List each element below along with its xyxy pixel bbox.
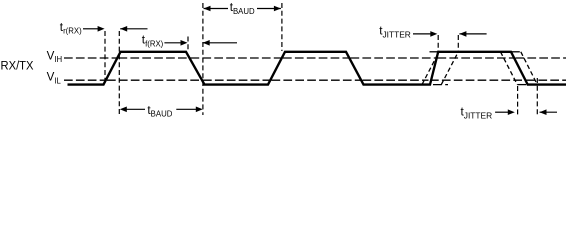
svg-text:VIL: VIL bbox=[47, 71, 62, 86]
wire jitter late rise dashed low segment bbox=[433, 84, 448, 86]
wire jitter early rise dashed high segment bbox=[430, 51, 439, 53]
dimension tJITTER top arrows bbox=[413, 33, 432, 35]
node witness line tf right / tBAUD top left / tBAUD bottom right bbox=[202, 3, 204, 115]
dimension tr(RX) arrows bbox=[83, 28, 98, 30]
dimension tJITTER bottom arrows bbox=[495, 111, 509, 113]
node witness line tr right / tBAUD bottom left bbox=[118, 31, 120, 115]
svg-text:tf(RX): tf(RX) bbox=[142, 33, 164, 49]
svg-text:RX/TX: RX/TX bbox=[1, 59, 34, 73]
wire jitter early falling edge (dashed) bbox=[501, 52, 518, 85]
node witness line tJITTER top right bbox=[457, 35, 459, 51]
wire jitter late rising edge (dashed) bbox=[441, 52, 458, 85]
node VIL dashed level line bbox=[64, 79, 106, 81]
dimension tBAUD top arrows bbox=[204, 8, 229, 10]
svg-text:tBAUD: tBAUD bbox=[147, 103, 172, 119]
wire jitter early fall dashed low segment bbox=[517, 84, 528, 86]
svg-text:tJITTER: tJITTER bbox=[461, 105, 493, 121]
svg-text:tBAUD: tBAUD bbox=[230, 0, 255, 16]
node witness line tJITTER top left bbox=[437, 35, 439, 51]
node witness line tJITTER bottom left bbox=[517, 86, 519, 115]
node witness line tJITTER bottom right bbox=[536, 78, 538, 115]
svg-text:VIH: VIH bbox=[47, 50, 63, 65]
wire jitter late falling edge (dashed) bbox=[521, 52, 538, 85]
svg-text:tJITTER: tJITTER bbox=[379, 24, 411, 40]
dimension tf(RX) arrows bbox=[164, 42, 182, 44]
dimension tBAUD bottom arrows bbox=[126, 108, 145, 110]
node witness line tr left bbox=[104, 31, 106, 84]
svg-text:tr(RX): tr(RX) bbox=[60, 20, 82, 36]
wire jitter late fall dashed high segment bbox=[511, 51, 521, 53]
node witness line tf left bbox=[187, 37, 189, 52]
wire RX/TX waveform solid bbox=[68, 52, 567, 85]
wire jitter early rising edge (dashed) bbox=[422, 52, 439, 85]
node VIH dashed level line bbox=[64, 57, 117, 59]
node witness line tBAUD top right bbox=[281, 3, 283, 51]
